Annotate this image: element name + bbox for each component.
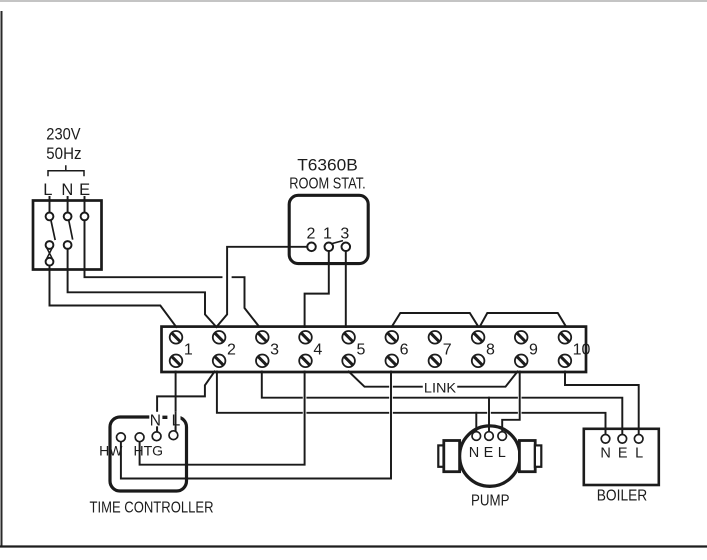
terminal 8 <box>472 331 495 367</box>
pump flange left inner <box>444 441 460 472</box>
pump terminal L <box>498 432 507 441</box>
controller label dash <box>162 416 167 419</box>
svg-text:2: 2 <box>307 226 316 243</box>
svg-text:10: 10 <box>573 342 591 359</box>
terminal 9 <box>515 331 538 367</box>
svg-text:LINK: LINK <box>424 379 457 395</box>
controller terminal HTG <box>135 433 144 442</box>
label 230V 50Hz <box>46 125 81 164</box>
svg-text:TIME CONTROLLER: TIME CONTROLLER <box>90 500 214 517</box>
svg-text:E: E <box>484 445 494 461</box>
terminal screws <box>170 331 591 367</box>
svg-text:N: N <box>150 412 161 429</box>
stub L <box>49 197 51 213</box>
pump terminal E <box>485 432 494 441</box>
time controller body <box>110 417 187 491</box>
contact circle N top <box>64 213 72 221</box>
boiler terminal E <box>618 435 627 444</box>
wire terminal 6 to controller HW <box>121 372 391 479</box>
controller label backing <box>149 412 180 427</box>
svg-text:N: N <box>600 445 610 461</box>
link loop 8-10 <box>480 313 566 327</box>
svg-text:T6360B: T6360B <box>297 157 358 175</box>
stat terminal labels 2 1 3 <box>307 226 350 243</box>
svg-text:2: 2 <box>227 342 236 359</box>
wire stub controller L <box>175 412 177 431</box>
bracket under 50Hz <box>48 166 84 176</box>
svg-text:3: 3 <box>340 226 349 243</box>
wire stub controller N <box>156 426 158 431</box>
svg-text:ROOM STAT.: ROOM STAT. <box>289 176 366 193</box>
wire E to terminal 3 <box>85 220 260 326</box>
wire terminal 2 to controller N <box>157 372 215 432</box>
wire N to terminal 2 <box>68 249 217 327</box>
link wire terminal 5 to terminal 9 <box>349 372 518 387</box>
switch arm L <box>51 220 55 239</box>
wire terminal 9 to pump L <box>502 372 520 432</box>
fuse link cross L <box>47 249 52 258</box>
label T6360B ROOM STAT. <box>289 157 366 193</box>
svg-text:230V: 230V <box>46 125 81 144</box>
boiler terminal N <box>601 435 610 444</box>
pump flange right inner <box>519 441 535 472</box>
svg-text:N: N <box>469 445 479 461</box>
controller terminal N <box>152 432 161 441</box>
terminal 6 <box>386 331 409 367</box>
svg-text:L: L <box>498 445 506 461</box>
stat terminal 2 <box>307 243 316 252</box>
terminal 1 <box>170 331 193 367</box>
pump flange right outer <box>535 445 541 466</box>
wire stat 1 to terminal 4 <box>305 251 329 327</box>
svg-text:1: 1 <box>184 342 193 359</box>
svg-text:1: 1 <box>323 226 332 243</box>
svg-text:E: E <box>618 445 628 461</box>
contact circle L mid <box>46 241 54 249</box>
pump body circle <box>460 426 520 486</box>
wire pump N drop <box>475 413 477 432</box>
terminal 5 <box>342 331 365 367</box>
contact circle N mid <box>64 241 72 249</box>
svg-text:BOILER: BOILER <box>597 488 648 505</box>
room stat body <box>289 195 368 263</box>
svg-text:HTG: HTG <box>134 443 164 459</box>
svg-text:9: 9 <box>529 342 538 359</box>
pump flange left outer <box>438 445 444 466</box>
terminal 4 <box>299 331 322 367</box>
svg-text:L: L <box>635 445 643 461</box>
stat terminal 1 <box>325 243 334 252</box>
boiler terminal L <box>634 435 643 444</box>
svg-text:3: 3 <box>270 342 279 359</box>
boiler body <box>584 429 659 485</box>
svg-text:8: 8 <box>486 342 495 359</box>
wire stat 3 to terminal 5 <box>345 251 347 327</box>
link loop 6-8 <box>392 313 479 327</box>
scan left edge line <box>1 12 3 546</box>
terminal 10 <box>559 331 591 367</box>
scan bottom edge line <box>0 545 707 547</box>
stub E <box>84 197 86 213</box>
contact circle L bottom <box>46 258 54 266</box>
svg-text:6: 6 <box>400 342 409 359</box>
wire terminal 4 to controller HTG <box>140 372 305 465</box>
wire terminal 10 to boiler L <box>565 372 639 435</box>
controller labels HW HTG <box>99 443 163 459</box>
pump labels N E L <box>469 445 506 461</box>
controller labels N - L <box>150 412 181 429</box>
stat terminal 3 <box>342 243 351 252</box>
controller terminal L <box>169 431 178 440</box>
svg-text:7: 7 <box>443 342 452 359</box>
svg-text:4: 4 <box>313 342 322 359</box>
earth line terminal 3 to pump E and boiler E <box>262 372 623 435</box>
svg-text:L: L <box>172 412 181 429</box>
wire L to terminal 1 <box>50 266 177 327</box>
wire terminal 1 to controller L <box>175 372 177 431</box>
svg-text:50Hz: 50Hz <box>46 144 81 163</box>
controller terminal HW <box>117 433 126 442</box>
stat switch contact arm <box>332 241 342 244</box>
wire stat 2 to terminal 2 <box>216 247 307 327</box>
contact circle L top <box>46 213 54 221</box>
terminal 7 <box>429 331 452 367</box>
label L N E <box>43 181 90 199</box>
terminal strip <box>162 327 587 372</box>
scan top edge line <box>0 0 707 2</box>
stub N <box>67 197 69 213</box>
svg-text:HW: HW <box>99 443 123 459</box>
terminal 2 <box>213 331 236 367</box>
junction box (mains isolator) <box>33 201 102 270</box>
wire pump E drop <box>488 398 490 432</box>
svg-text:PUMP: PUMP <box>471 493 510 510</box>
terminal 3 <box>256 331 279 367</box>
neutral line terminal 2 to pump N and boiler N <box>217 372 606 435</box>
svg-text:L: L <box>43 181 52 199</box>
svg-text:5: 5 <box>356 342 365 359</box>
boiler labels N E L <box>600 445 643 461</box>
contact circle E top <box>81 213 89 221</box>
switch arm N <box>69 220 73 239</box>
pump terminal N <box>472 432 481 441</box>
